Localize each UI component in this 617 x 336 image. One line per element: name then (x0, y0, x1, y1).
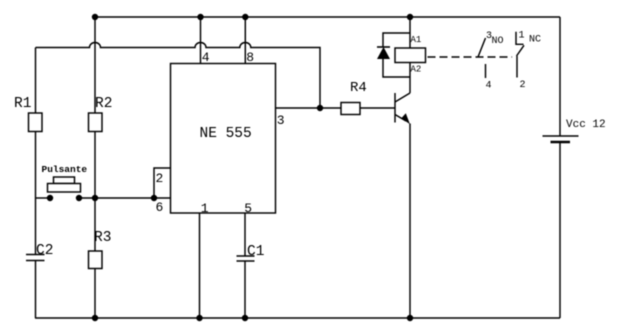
wire second rail with hops to pin3 node (36, 43, 321, 109)
relay contact NC (516, 31, 541, 92)
wire R2 top lead (94, 17, 96, 113)
node pin2/6 junction (151, 195, 157, 201)
relay contact NO (478, 31, 504, 92)
node pin4 top junction (197, 14, 203, 20)
wire top rail (95, 16, 560, 18)
svg-text:Pulsante: Pulsante (42, 164, 88, 175)
node pushbutton-R2 junction (92, 195, 98, 201)
wire emitter to bottom rail (409, 124, 411, 319)
diode D1 flyback (377, 33, 410, 77)
node C1 bottom junction (242, 315, 248, 321)
wire C2 to bottom rail (35, 261, 37, 319)
resistor R4 (341, 103, 360, 115)
wire dashed actuator link (428, 56, 513, 58)
node pin8 top junction (242, 14, 248, 20)
wire bottom rail (35, 317, 560, 319)
pin 8 lead (244, 17, 246, 64)
transistor Q1 (395, 93, 410, 124)
pin 3 lead (276, 107, 342, 109)
svg-text:2: 2 (520, 80, 526, 91)
capacitor C2 (26, 243, 53, 261)
wire right edge to battery (559, 17, 561, 136)
pin 5 lead (244, 213, 246, 256)
resistor R1 (29, 113, 43, 132)
wire left branch upper (R1 top lead) (35, 48, 37, 114)
capacitor C1 (237, 244, 265, 261)
svg-text:R1: R1 (14, 96, 31, 112)
wire C1 to bottom rail (244, 261, 246, 318)
svg-text:1: 1 (519, 31, 525, 42)
node relay top junction (407, 14, 413, 20)
svg-text:2: 2 (156, 171, 164, 186)
wire R2 junction to R3 (94, 198, 96, 251)
svg-text:C1: C1 (247, 244, 264, 260)
svg-text:Vcc 12: Vcc 12 (566, 119, 606, 131)
wire pin2 loop (154, 168, 171, 198)
svg-text:8: 8 (246, 50, 254, 65)
node emitter bottom junction (407, 315, 413, 321)
wire pushbutton right terminal to pin6 node (79, 197, 154, 199)
wire R1 to pushbutton tee (35, 132, 37, 255)
svg-text:NO: NO (492, 36, 504, 47)
svg-text:C2: C2 (36, 243, 53, 259)
svg-text:A1: A1 (411, 35, 422, 45)
pushbutton Pulsante (42, 164, 88, 201)
svg-text:R2: R2 (95, 96, 112, 112)
svg-text:NE 555: NE 555 (200, 126, 252, 142)
wire battery to bottom rail (559, 142, 561, 318)
svg-text:R4: R4 (350, 80, 367, 96)
svg-text:R3: R3 (94, 230, 111, 246)
node R3 bottom junction (92, 315, 98, 321)
svg-text:A2: A2 (411, 65, 422, 75)
wire R4 to base (360, 107, 395, 109)
resistor R3 (89, 251, 103, 269)
svg-text:3: 3 (277, 113, 285, 128)
node pin3 junction (317, 105, 323, 111)
node top-left junction (92, 14, 98, 20)
svg-text:4: 4 (202, 50, 210, 65)
pin 1 lead (199, 213, 201, 318)
battery Vcc 12 (543, 119, 606, 142)
pin 4 lead (200, 17, 202, 64)
svg-text:NC: NC (529, 35, 541, 46)
svg-text:6: 6 (156, 200, 164, 215)
wire R3 to bottom rail (94, 269, 96, 319)
node pin1 bottom junction (196, 315, 202, 321)
op-amp U1 NE 555 body (171, 64, 276, 214)
svg-text:1: 1 (201, 201, 209, 216)
wire collector to relay (409, 63, 411, 94)
resistor R2 (89, 113, 103, 132)
relay coil K1 (395, 17, 426, 75)
wire left branch to pushbutton left terminal (36, 197, 51, 199)
svg-text:5: 5 (244, 201, 252, 216)
wire pin6 lead (154, 197, 171, 199)
wire R2 to pushbutton junction (94, 132, 96, 199)
svg-text:4: 4 (486, 81, 492, 92)
